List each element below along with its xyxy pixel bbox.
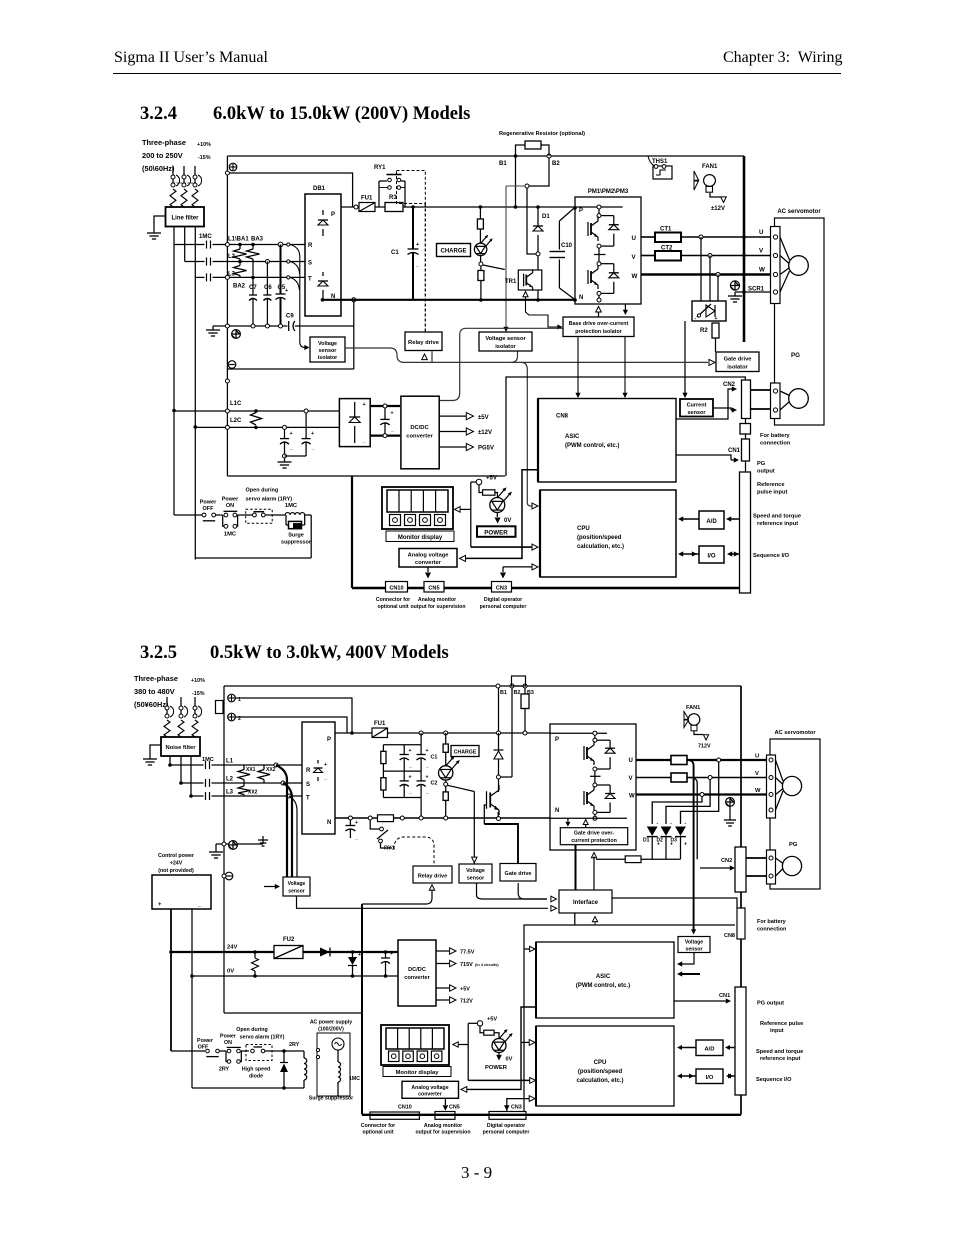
wire interface bottom down [574, 913, 576, 925]
svg-text:Power: Power [200, 500, 217, 506]
node PM P pin [573, 206, 577, 210]
node circle U tap d2 [717, 758, 721, 762]
wire TR gate down [484, 805, 486, 824]
svg-text:PM1\PM2\PM3: PM1\PM2\PM3 [588, 189, 629, 195]
svg-text:1MC: 1MC [202, 757, 214, 763]
dashed wire RY1 to relay drive d2 [394, 837, 434, 864]
current transformer CT2 [655, 251, 681, 261]
svg-text:+: + [311, 431, 314, 437]
box gate drive isolator [716, 352, 759, 372]
wire rect to cap top [370, 405, 400, 407]
terminal circle on left bus [225, 171, 229, 175]
svg-text:POWER: POWER [485, 1065, 508, 1071]
wire gray to voltage sensor isolator 2 [506, 185, 525, 187]
svg-text:servo alarm (1RY): servo alarm (1RY) [246, 497, 293, 503]
crossing circle bus/R [225, 243, 229, 247]
svg-text:(not provided): (not provided) [158, 868, 194, 874]
circuit breaker pole 1 [172, 166, 174, 175]
diode clamp vertical [351, 950, 355, 954]
svg-text:W: W [629, 794, 635, 800]
node circle R right 2 [287, 243, 290, 246]
svg-text:Base drive over-current: Base drive over-current [569, 321, 629, 327]
wire PSU to bottom bus [351, 476, 353, 588]
svg-text:Analog voltage: Analog voltage [411, 1085, 448, 1091]
svg-text:FAN1: FAN1 [702, 164, 718, 170]
terminal B3 d2 [523, 684, 527, 688]
svg-text:V: V [755, 771, 759, 777]
PE circle near SCR1 [730, 281, 739, 290]
diode D1 [537, 207, 539, 226]
node N at DB1 diode [321, 298, 325, 302]
svg-text:Open during: Open during [236, 1027, 267, 1033]
svg-text:CPU: CPU [594, 1060, 607, 1066]
svg-text:1MC: 1MC [199, 234, 212, 240]
box voltage sensor B d2 [283, 877, 310, 896]
wire 0V feed [191, 909, 193, 976]
svg-text:Noise filter: Noise filter [166, 745, 197, 751]
svg-text:For battery: For battery [760, 433, 791, 439]
thick riser to bus d2 [361, 904, 363, 1115]
resistor power LED [479, 485, 483, 493]
svg-text:0V: 0V [506, 1057, 513, 1063]
node B1 [514, 154, 518, 158]
svg-text:A/D: A/D [705, 1047, 715, 1053]
gate arrow TR1 [523, 292, 528, 297]
output +-12V [439, 431, 466, 433]
svg-text:(100/200V): (100/200V) [318, 1027, 344, 1033]
node above N d2 [593, 810, 597, 814]
svg-text:R2: R2 [700, 328, 708, 334]
svg-text:Voltage sensor: Voltage sensor [485, 336, 526, 342]
svg-text:N: N [555, 808, 559, 814]
svg-text:0V: 0V [504, 518, 511, 524]
svg-text:(PWM control, etc.): (PWM control, etc.) [576, 983, 630, 989]
wire left to interface [297, 896, 549, 908]
svg-text:+: + [363, 402, 366, 408]
dashed enclosure RY1 [397, 171, 426, 204]
wire sense down to voltage sensor A [473, 792, 475, 865]
wire ASIC to CN1 d2 [674, 1000, 727, 1002]
wire +5V vertical d2 [467, 1023, 469, 1080]
box CHARGE [437, 244, 471, 257]
wire ASIC to CN2 upper [676, 389, 733, 419]
node PM N pin [573, 298, 577, 302]
wire terminal1 to P rail [236, 698, 353, 733]
arrow into voltage sensor B [264, 886, 276, 888]
wire DB1 P to FU1 [341, 206, 354, 208]
breaker pole 2 d2 [180, 697, 182, 706]
node circle P-cluster [419, 731, 423, 735]
connector CN3 d2 [489, 1112, 526, 1120]
wire fan to +-12V [710, 193, 721, 197]
control box bottom edge [227, 475, 505, 477]
AC supply box [317, 1033, 350, 1096]
noise filter outputs [169, 756, 171, 765]
capacitor 24V [384, 950, 388, 954]
box A/D d2 [696, 1040, 723, 1056]
wire L2C [195, 426, 341, 428]
node gnd-C5 [279, 324, 283, 328]
svg-text:connection: connection [757, 927, 787, 933]
control box 2 bottom edge [224, 1012, 362, 1014]
box voltage sensor isolator 1 [310, 337, 345, 362]
svg-text:-15%: -15% [192, 691, 205, 697]
svg-text:converter: converter [415, 560, 442, 566]
svg-text:C6: C6 [264, 285, 272, 291]
link CN1-bar [745, 461, 747, 472]
node gnd-C6 [265, 324, 269, 328]
wire rect to cap bottom [370, 435, 400, 437]
motor wires [780, 237, 790, 260]
svg-text:Digital operator: Digital operator [484, 597, 522, 603]
diode on 24V rail [320, 948, 330, 957]
svg-text:diode: diode [249, 1074, 263, 1080]
svg-text:D1: D1 [542, 214, 550, 220]
node W box edge [742, 273, 746, 277]
svg-text:Power: Power [220, 1034, 236, 1040]
svg-text:±12V: ±12V [711, 206, 725, 212]
svg-text:calculation, etc.): calculation, etc.) [577, 544, 624, 550]
svg-text:T: T [306, 796, 310, 802]
wire terminal2 to P rail [236, 717, 348, 733]
breaker mechanical link dashed [173, 182, 196, 184]
capacitor C6 [266, 262, 268, 296]
terminal block rect [216, 701, 224, 714]
svg-text:1MC: 1MC [349, 1076, 360, 1082]
ground control caps [284, 458, 286, 462]
wire to voltage sensor C [691, 929, 696, 934]
node N-charge [479, 298, 483, 302]
wire phase T [195, 276, 204, 278]
main box 2 top edge [224, 685, 741, 687]
thick wires gdoc to interface [575, 845, 577, 890]
svg-text:XX1: XX1 [246, 767, 256, 773]
svg-text:Line filter: Line filter [171, 216, 199, 222]
svg-text:L2: L2 [226, 777, 234, 783]
resistor above charge LED [479, 207, 481, 219]
svg-text:24V: 24V [227, 945, 237, 951]
inductor lead 2 [181, 189, 187, 207]
wire base drive to ASIC left [577, 337, 579, 395]
svg-text:Three-phase: Three-phase [134, 674, 178, 683]
wire ASIC to AVC [462, 470, 538, 559]
svg-text:V: V [629, 776, 633, 782]
motor connector bar [771, 227, 781, 304]
thick wire L1 to voltage sensor B [276, 765, 287, 877]
svg-text:C1: C1 [431, 755, 438, 761]
node SCR1 box edge [742, 290, 746, 294]
svg-text:+: + [715, 316, 718, 322]
svg-text:T: T [308, 277, 312, 283]
PM top rail [575, 206, 623, 208]
wire LED 0V d2 [498, 1053, 500, 1056]
header left [114, 49, 268, 67]
wire ASIC to AVC d2 [464, 1007, 536, 1089]
diode D2 d2 [661, 827, 672, 836]
cluster top rail [383, 744, 421, 746]
connector CN2 [742, 380, 751, 419]
svg-text:S: S [306, 782, 310, 788]
svg-text:L1: L1 [226, 759, 234, 765]
resistor XX2b [243, 783, 245, 786]
terminal minus circle on left bus [228, 361, 236, 369]
svg-text:_: _ [390, 427, 394, 433]
switch power ON d2 [220, 1050, 227, 1052]
terminal 2 plus circle [228, 713, 236, 721]
ground under PE [734, 292, 736, 296]
wire N rail [323, 299, 576, 301]
wire L1C [174, 410, 341, 412]
link battery-CN1 [745, 434, 747, 439]
svg-text:RY1: RY1 [384, 846, 395, 852]
thyristor box R2 bridge [692, 301, 726, 321]
svg-text:ON: ON [226, 503, 234, 509]
section 3.2.5 title [140, 643, 177, 664]
ground symbol input section [212, 326, 214, 330]
node circle on N rail [352, 298, 356, 302]
wire LED node diagonal [448, 785, 475, 791]
ground motor d2 [729, 807, 731, 816]
capacitor N filter d2 [348, 816, 352, 820]
rectifier DB1 box [305, 194, 341, 316]
svg-text:(50¥60Hz): (50¥60Hz) [134, 700, 169, 709]
PG wires [780, 391, 790, 396]
svg-text:+10%: +10% [191, 678, 205, 684]
CPU box [540, 490, 676, 577]
svg-text:Surge: Surge [288, 533, 304, 539]
svg-text:protection isolator: protection isolator [575, 329, 622, 335]
connector CN10 d2 [370, 1112, 419, 1119]
arrows N rail to gdoc [567, 818, 569, 821]
diode D3 d2 [675, 827, 686, 836]
svg-text:connection: connection [760, 441, 791, 447]
node L1 start [168, 763, 172, 767]
svg-text:P: P [555, 737, 559, 743]
svg-text:BA2: BA2 [233, 284, 246, 290]
svg-text:CT2: CT2 [661, 246, 673, 252]
node R-BA3 [251, 243, 255, 247]
current sensor box [680, 399, 713, 417]
PG connector bar d2 [767, 850, 776, 884]
ground small d2 [262, 840, 264, 844]
wire CN2 to PG connector lower [751, 408, 771, 410]
svg-text:(PWM control, etc.): (PWM control, etc.) [565, 443, 619, 449]
svg-text:(position/speed: (position/speed [577, 535, 622, 541]
circuit breaker pole 3 [194, 166, 196, 175]
svg-text:converter: converter [406, 434, 433, 440]
svg-text:converter: converter [404, 975, 430, 981]
connector CN8 d2 [737, 908, 745, 939]
ground at line filter [153, 229, 155, 233]
svg-text:C2: C2 [431, 781, 438, 787]
wire base drive to ASIC right [624, 337, 626, 395]
svg-text:Speed and torque: Speed and torque [756, 1049, 803, 1055]
wire branch to CPU 1042 d2 [521, 1041, 530, 1043]
svg-text:+: + [684, 842, 687, 848]
svg-text:2RY: 2RY [289, 1042, 300, 1048]
terminal B1 d2 [496, 684, 500, 688]
svg-text:output: output [757, 469, 775, 475]
wire +5V vertical [470, 482, 472, 547]
line filter LF [166, 207, 205, 227]
svg-text:For battery: For battery [757, 919, 787, 925]
wire PM to base drive arrows [596, 306, 602, 312]
wire sensor line to gate drive isolator [345, 348, 708, 362]
svg-text:FAN1: FAN1 [686, 705, 700, 711]
wire 0V rail [192, 975, 398, 977]
wire LED node to sensor wire [483, 265, 505, 270]
capacitor dc link [384, 408, 386, 419]
svg-text:U: U [632, 235, 637, 242]
header rule [113, 73, 841, 74]
svg-text:CN3: CN3 [511, 1105, 522, 1111]
svg-text:PG5V: PG5V [478, 446, 494, 452]
svg-text:Sequence I/O: Sequence I/O [756, 1077, 792, 1083]
svg-text:OFF: OFF [203, 506, 215, 512]
svg-text:PG: PG [789, 842, 798, 848]
svg-text:D2: D2 [657, 838, 664, 844]
wires CN2 to PG d2 [746, 857, 767, 859]
svg-text:sensor: sensor [687, 410, 706, 416]
fuse FU1 [359, 203, 375, 212]
wire coil to loop right [305, 514, 312, 516]
svg-text:(50\60Hz): (50\60Hz) [142, 164, 175, 173]
wire N sense vertical [353, 302, 355, 369]
svg-text:PG: PG [757, 461, 766, 467]
high speed diode [283, 1051, 285, 1062]
ground line below capacitors [213, 325, 287, 327]
CT rect V d2 [671, 773, 687, 782]
page number [461, 1163, 492, 1183]
svg-text:77.5V: 77.5V [460, 950, 475, 956]
svg-text:R: R [306, 768, 311, 774]
svg-text:ON: ON [224, 1040, 232, 1046]
wire branch up into voltage sensor isolator 2 [511, 352, 518, 363]
svg-text:D1: D1 [643, 838, 650, 844]
node L1C tap [172, 409, 176, 413]
svg-text:DC/DC: DC/DC [410, 425, 429, 431]
svg-text:L3: L3 [226, 790, 234, 796]
svg-text:Power: Power [197, 1038, 213, 1044]
node L2C tap [194, 425, 198, 429]
wire U to CT1 [641, 236, 655, 238]
wire to monitor arrow d2 [457, 1044, 468, 1046]
diode upper in PM [601, 215, 614, 217]
svg-text:B2: B2 [552, 161, 560, 167]
svg-text:C10: C10 [561, 243, 573, 249]
svg-text:+: + [358, 952, 361, 958]
node circle below LED d2 [445, 780, 447, 782]
control logic enclosure [506, 377, 745, 476]
resistor below LED d2 [445, 786, 447, 792]
node L3 start [189, 794, 193, 798]
svg-text:Analog monitor: Analog monitor [424, 1123, 462, 1129]
svg-text:CPU: CPU [577, 526, 590, 532]
svg-text:Sequence I/O: Sequence I/O [753, 553, 790, 559]
svg-text:CHARGE: CHARGE [454, 750, 477, 756]
arrow up into interface bottom [592, 917, 597, 922]
node T-C7 [251, 276, 255, 280]
wire branch down to CPU [521, 362, 532, 506]
circuit breaker pole 2 [183, 166, 185, 175]
box voltage sensor isolator 2 [479, 332, 532, 351]
ground left d2 [215, 844, 217, 848]
svg-text:Voltage: Voltage [288, 881, 306, 887]
resistor XX1 [243, 765, 245, 770]
wire L1 tap down [173, 245, 175, 516]
svg-text:2RY: 2RY [219, 1067, 230, 1073]
CPU box d2 [536, 1026, 674, 1106]
monitor display label d2 [383, 1067, 451, 1077]
rectifier control box [339, 399, 370, 447]
wire line-filter output 2 [184, 227, 186, 262]
node circles dc link [383, 404, 387, 408]
switch power ON [216, 514, 221, 516]
curve U to sensor feed [688, 760, 694, 930]
svg-text:0V: 0V [227, 969, 234, 975]
svg-text:RY1: RY1 [374, 165, 386, 171]
wire gate drive to interface [518, 883, 547, 899]
node circle P-led [444, 731, 448, 735]
svg-text:715V: 715V [460, 962, 473, 968]
svg-text:712V: 712V [698, 744, 711, 750]
wire I/O to CPU [681, 553, 699, 555]
svg-text:U: U [759, 229, 764, 236]
PG connector bar [771, 383, 781, 419]
output 712V [436, 999, 449, 1001]
wire CN1 to I/O [730, 553, 750, 555]
resistor R3 [385, 203, 403, 212]
svg-text:CN1: CN1 [728, 448, 741, 454]
PE circle motor d2 [726, 798, 735, 807]
mid node upper [597, 244, 601, 248]
terminal arrow +-12V [721, 197, 727, 203]
wire P rail [403, 206, 575, 208]
node U box edge [742, 235, 746, 239]
svg-text:C7: C7 [249, 285, 257, 291]
svg-text:L1C: L1C [230, 401, 242, 407]
monitor display box d2 [381, 1025, 449, 1065]
node circle V tap [708, 254, 712, 258]
motor wires d2 [776, 760, 784, 781]
node circle cap1 top [283, 425, 287, 429]
wire base drive left output [439, 328, 563, 400]
svg-text:DB1: DB1 [313, 186, 326, 192]
header right [723, 49, 842, 67]
IGBT lower in PM [587, 270, 589, 284]
box DC/DC converter d2 [398, 940, 436, 1006]
resistor cluster lower [382, 771, 384, 778]
wire B2 branch to TR1 collector [527, 188, 536, 254]
wire to CPU at 547 [471, 546, 532, 548]
main amplifier box right edge [743, 156, 746, 342]
resistor BA3 [252, 245, 254, 250]
PE circle d2 [229, 841, 238, 850]
wire CN8 to ASIC [681, 973, 700, 975]
svg-text:isolator: isolator [318, 355, 338, 361]
svg-text:B1: B1 [500, 690, 507, 696]
svg-text:CHARGE: CHARGE [440, 249, 466, 255]
wire P rail d2 [335, 732, 550, 734]
wire relay drive stub [431, 351, 433, 362]
svg-text:isolator: isolator [495, 344, 516, 350]
main amplifier box bottom edge segment [227, 368, 353, 370]
node L2 start [179, 781, 183, 785]
cluster mid rail [383, 770, 421, 772]
box base drive over-current protection isolator [563, 317, 634, 337]
svg-text:N: N [327, 820, 331, 826]
connector CN2 d2 [735, 847, 746, 892]
